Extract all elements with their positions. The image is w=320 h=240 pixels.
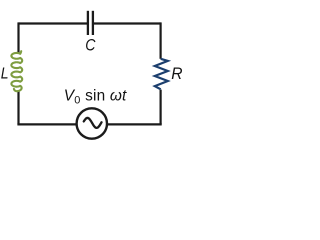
wire: capacitor right plate to top-right corner <box>93 22 161 24</box>
wire: left side above inductor <box>17 22 19 53</box>
wire: left side below inductor <box>17 91 19 125</box>
svg-text:C: C <box>85 36 96 54</box>
wire: bottom-left corner to source <box>17 123 76 125</box>
resistor R1 zigzag <box>155 59 168 90</box>
AC source sine symbol <box>84 118 102 128</box>
wire: top-left corner to capacitor left plate <box>19 22 88 24</box>
wire: right side below resistor <box>160 90 162 125</box>
inductor L1 coil <box>11 51 22 91</box>
wire: right side above resistor <box>160 22 162 58</box>
svg-text:V0 sin ωt: V0 sin ωt <box>64 87 127 106</box>
capacitor C1 right plate <box>92 11 94 35</box>
capacitor C1 left plate <box>87 11 89 35</box>
svg-text:L: L <box>1 66 9 83</box>
wire: source to bottom-right corner <box>107 123 162 125</box>
AC source V1 circle <box>77 108 107 138</box>
svg-text:R: R <box>171 65 182 84</box>
